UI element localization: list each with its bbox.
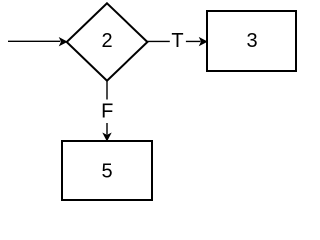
svg-text:2: 2: [101, 30, 112, 52]
svg-text:F: F: [101, 100, 113, 122]
svg-text:T: T: [171, 30, 183, 52]
svg-text:3: 3: [246, 30, 257, 52]
svg-text:5: 5: [101, 161, 112, 183]
